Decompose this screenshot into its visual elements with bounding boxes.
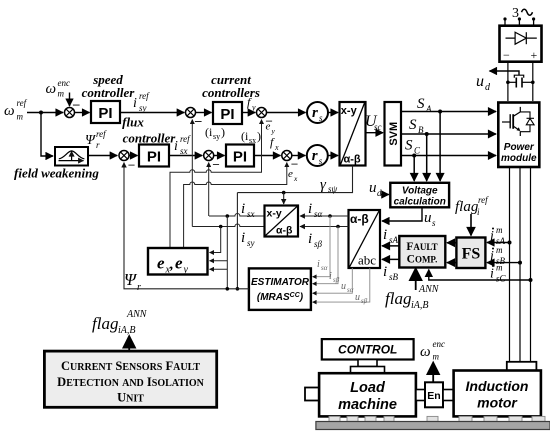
wire field weakening to junction 4 [88, 155, 117, 157]
junction dot gamma branch [282, 191, 286, 195]
label e_x [288, 168, 298, 183]
svg-text:m: m [433, 352, 440, 362]
svg-text:–: – [194, 113, 202, 128]
wire i_sy tap into exey box [210, 227, 221, 253]
junction dot i_sx tap to exey [226, 214, 230, 218]
gain block rs1 [307, 102, 328, 123]
summing junction 3 [257, 108, 267, 118]
shaft stub load machine to encoder [416, 390, 425, 401]
svg-text:enc: enc [433, 339, 446, 349]
junction dot gamma vertical at Psi_r line [236, 287, 240, 291]
svg-text:ref: ref [17, 98, 28, 108]
svg-text:sy: sy [139, 103, 147, 113]
FAULT COMP block [399, 236, 445, 268]
label Psi_r [124, 270, 141, 293]
svg-text:FS: FS [462, 246, 481, 263]
svg-text:y: y [183, 265, 189, 276]
wire gamma_spsi from big block down, left along y=192.6 [237, 166, 352, 193]
label U_sc [365, 113, 382, 132]
svg-text:m: m [17, 112, 24, 122]
svg-text:sα: sα [321, 264, 328, 272]
svg-text:abc: abc [358, 253, 376, 268]
svg-text:α-β: α-β [344, 154, 361, 166]
svg-text:x: x [293, 174, 298, 183]
svg-text:Voltage: Voltage [402, 186, 438, 197]
svg-text:ref: ref [180, 134, 191, 144]
svg-text:e: e [157, 254, 165, 273]
label i_sx (feedback) [241, 201, 255, 219]
svg-text:flag: flag [455, 199, 479, 215]
supply pin A [503, 17, 506, 24]
base bar [316, 422, 550, 430]
svg-text:PI: PI [147, 149, 161, 166]
label i_salpha small [317, 259, 328, 272]
field weakening block [55, 147, 88, 166]
svg-text:sA: sA [389, 235, 399, 245]
svg-text:machine: machine [338, 397, 397, 413]
svg-text:Ψ: Ψ [85, 133, 96, 148]
svg-text:En: En [427, 390, 440, 402]
svg-text:controller: controller [123, 131, 177, 146]
label Psi_r_ref [85, 129, 107, 150]
label u_s [424, 210, 436, 228]
svg-text:(i: (i [241, 129, 249, 143]
wire FAULT COMP to abc block i_sA [382, 245, 399, 247]
control pedestal [351, 360, 385, 374]
svg-text:motor: motor [477, 395, 518, 411]
svg-text:): ) [257, 129, 261, 143]
svg-text:PI: PI [98, 105, 112, 122]
motor terminal pedestal [507, 362, 537, 371]
node omega_m_enc label (top) [46, 78, 71, 99]
label (i_sy) [205, 125, 225, 141]
svg-text:r: r [96, 140, 100, 150]
svg-text:flux: flux [122, 115, 144, 130]
label gamma_spsi [320, 177, 338, 194]
wire i_sC tap under FS into FAULT COMP bottom [429, 270, 531, 281]
wire omega ref to summing junction 1 [27, 112, 63, 114]
svg-text:m: m [58, 89, 65, 99]
rectifier block [500, 26, 542, 62]
svg-text:SVM: SVM [388, 122, 400, 146]
wire junction1 to PI1 [75, 112, 90, 114]
junction dot i_sC tap [529, 278, 533, 282]
wire gamma branch down into small xy block [283, 193, 285, 204]
wire Psi_r tap into exey box [210, 268, 228, 270]
label e_y [266, 121, 276, 136]
svg-text:i: i [383, 264, 387, 280]
svg-text:(i: (i [205, 125, 213, 139]
svg-text:sy: sy [247, 238, 255, 248]
svg-text:–: – [128, 157, 136, 171]
wire i_sx feedback riser to junction 5 [208, 163, 210, 217]
wire flag_i_ref down to FS [470, 214, 472, 236]
CURRENT SENSORS FAULT DETECTION AND ISOLATION UNIT block [44, 351, 216, 407]
wire FAULT COMP to abc block i_sB [382, 258, 399, 260]
wire FS to FAULT COMP (lower) [447, 262, 456, 264]
small transform block x-y / alpha-beta (current) [265, 206, 299, 237]
wire rs2 to xy-ab block [328, 155, 338, 157]
svg-text:controller: controller [82, 85, 136, 100]
svg-text:d: d [377, 188, 382, 198]
wire S_A line to power module [401, 111, 496, 113]
svg-text:Power: Power [504, 142, 535, 153]
summing junction 6 [282, 151, 292, 161]
supply pin C [532, 17, 535, 24]
wire flag_iAB to FAULT COMP bottom [415, 270, 417, 291]
FS block [456, 238, 485, 269]
wire Usc to SVM [366, 132, 384, 134]
svg-text:sβ: sβ [314, 239, 323, 249]
node omega_m_ref input label [4, 98, 28, 122]
summing junction 1 [65, 108, 75, 118]
svg-text:): ) [221, 125, 225, 139]
wire u_s from voltage calculation to ab-abc block [382, 207, 422, 221]
svg-text:i: i [329, 271, 332, 282]
svg-text:i: i [241, 230, 245, 246]
wire u_d into voltage calculation [381, 194, 389, 196]
svg-text:,: , [169, 257, 174, 273]
svg-text:ESTIMATOR: ESTIMATOR [251, 277, 310, 288]
svg-text:PI: PI [233, 149, 247, 166]
svg-text:u: u [341, 281, 346, 292]
wire e_x output path up to junction 6 [184, 163, 287, 249]
junction dot cable B tap [518, 261, 522, 265]
label i_sA [383, 227, 399, 245]
wire flag up from CSFDIU [128, 337, 130, 351]
svg-text:m: m [496, 263, 503, 273]
label S_C [405, 138, 421, 156]
wire u_sbeta from abc bottom to estimator [313, 268, 370, 302]
transform block alpha-beta to abc [349, 210, 381, 268]
Load machine block [319, 373, 416, 416]
wire junction2 to PI2 [196, 112, 212, 114]
label u_d (at voltage calculation) [369, 180, 382, 198]
svg-text:m: m [496, 245, 503, 255]
svg-text:CONTROL: CONTROL [338, 343, 397, 357]
wire DC rail left [507, 62, 509, 101]
svg-text:i: i [174, 139, 178, 154]
junction dot at omega ref branch [39, 111, 43, 115]
junction dot i_sy tap to exey [219, 225, 223, 229]
supply pin B [518, 17, 521, 24]
wire PI2 to junction 3 [242, 112, 255, 114]
label flag_iAB_ANN (left) [92, 309, 148, 336]
label i_sC_m [490, 263, 507, 284]
svg-text:i: i [490, 249, 494, 264]
svg-text:x-y: x-y [341, 105, 358, 117]
svg-text:α-β: α-β [350, 212, 369, 226]
PI controller 1 (speed) [91, 101, 120, 123]
svg-text:s: s [432, 218, 436, 228]
svg-text:e: e [266, 121, 271, 133]
svg-text:ref: ref [139, 91, 150, 101]
svg-text:FAULT: FAULT [406, 241, 437, 253]
svg-text:flag: flag [385, 289, 411, 308]
svg-text:PI: PI [220, 106, 234, 123]
label i_salpha [308, 201, 323, 219]
svg-text:sC: sC [496, 274, 507, 284]
svg-text:r: r [137, 282, 141, 293]
wire cable A tap to FS [487, 242, 510, 244]
junction dot i_salpha tap [328, 214, 332, 218]
shaft stub encoder to motor [443, 390, 454, 401]
svg-text:i: i [317, 259, 320, 270]
voltage calculation block [390, 183, 449, 208]
svg-text:ω: ω [4, 103, 15, 119]
PI controller 2 (current y) [213, 102, 242, 124]
svg-text:controllers: controllers [202, 85, 260, 100]
svg-text:enc: enc [58, 78, 71, 88]
PI controller 4 (current x) [226, 145, 254, 167]
junction dot S_B tap [425, 132, 429, 136]
gain block rs2 [307, 145, 328, 166]
svg-text:sB: sB [389, 272, 399, 282]
svg-text:r: r [312, 105, 318, 121]
svg-text:y: y [251, 103, 256, 112]
wire i_sx line from small xy block (jump over gamma vertical) [209, 214, 265, 217]
Induction motor block [454, 371, 541, 417]
wire PI4 to junction 6 [254, 155, 280, 157]
wire i_salpha from abc block to small xy block [300, 215, 349, 217]
CONTROL block [322, 339, 414, 359]
PI controller 3 (flux) [139, 145, 169, 167]
svg-text:i: i [133, 96, 137, 111]
svg-text:ANN: ANN [418, 284, 440, 295]
wire junction4 to PI3 [129, 155, 138, 157]
encoder En block [425, 382, 443, 407]
wire Psi_r from estimator to flux junction 4 [124, 163, 249, 289]
label omega_m_enc (bottom) [420, 339, 445, 362]
svg-text:sψ: sψ [328, 184, 338, 194]
label u_d (top) [476, 73, 491, 93]
svg-text:field weakening: field weakening [14, 166, 99, 181]
label i_sB [383, 264, 399, 282]
svg-text:i: i [308, 231, 312, 247]
label S_B [409, 117, 424, 135]
svg-text:Load: Load [350, 380, 386, 396]
load machine left shaft stub [305, 388, 319, 401]
svg-text:CURRENT SENSORS FAULT: CURRENT SENSORS FAULT [61, 359, 200, 373]
svg-text:Induction: Induction [466, 378, 529, 394]
svg-text:S: S [417, 96, 425, 112]
label i_sy (feedback) [241, 230, 255, 248]
svg-text:sx: sx [180, 146, 188, 156]
summing junction 4 (flux) [119, 151, 129, 161]
svg-text:i: i [383, 227, 387, 243]
summing junction 2 [186, 108, 196, 118]
svg-text:A: A [425, 104, 432, 114]
coordinate transform block x-y to alpha-beta (voltage) [340, 102, 366, 166]
wire i_salpha tap down to estimator [313, 216, 331, 277]
svg-text:r: r [312, 148, 318, 164]
svg-text:i: i [490, 229, 494, 244]
wire motor cable A [509, 167, 511, 362]
wire S_B tap down to voltage calculation [426, 134, 428, 181]
junction dot DC right [531, 81, 535, 85]
svg-text:u: u [355, 292, 360, 303]
wire i_sbeta tap down to estimator [313, 227, 339, 284]
svg-text:COMP.: COMP. [407, 254, 438, 266]
SVM block [385, 102, 402, 166]
capacitor C_dc [508, 75, 533, 87]
svg-text:sβ: sβ [361, 297, 368, 305]
wire e_y output path up to junction 3 [170, 120, 262, 249]
wire motor cable B [519, 167, 521, 362]
junction dot DC left [506, 81, 510, 85]
wire i_sy feedback riser to junction 2 [191, 120, 193, 227]
svg-text:–: – [212, 157, 220, 171]
wire u_salpha from abc bottom to estimator [313, 268, 353, 293]
label flag_i_ref [455, 195, 489, 217]
label i_sx_ref [174, 134, 191, 156]
svg-text:u: u [424, 210, 432, 226]
svg-text:sc: sc [374, 122, 382, 132]
svg-text:ω: ω [420, 344, 431, 360]
junction dot cable A tap [508, 241, 512, 245]
wire i_sy line from small xy block (jump over gamma vertical) [192, 224, 264, 227]
svg-text:calculation: calculation [394, 197, 446, 208]
svg-text:ANN: ANN [126, 309, 148, 320]
label i_sB_m [490, 245, 506, 266]
svg-text:sα: sα [347, 286, 354, 294]
svg-text:u: u [476, 73, 484, 90]
label S_A [417, 96, 432, 114]
svg-text:u: u [369, 180, 377, 196]
svg-text:module: module [501, 153, 537, 164]
svg-text:x: x [274, 143, 279, 152]
label u_salpha small [341, 281, 354, 294]
svg-text:−: − [503, 48, 510, 62]
label f_y [247, 95, 256, 112]
wire omega ref branch down to field weakening [41, 113, 53, 157]
svg-text:sx: sx [247, 209, 255, 219]
junction dot S_C tap [412, 154, 416, 158]
svg-text:sα: sα [314, 209, 323, 219]
label i_sbeta [308, 231, 323, 249]
svg-text:ref: ref [96, 129, 107, 139]
svg-text:i: i [490, 267, 494, 282]
wire S_A tap down to voltage calculation [439, 112, 441, 182]
svg-text:sβ: sβ [333, 276, 340, 284]
wire S_C line to power module [401, 155, 496, 157]
wire motor cable C [530, 167, 532, 362]
power module block [498, 103, 539, 168]
svg-text:flag: flag [92, 314, 118, 333]
svg-text:s: s [319, 156, 323, 166]
wire DC rail right [532, 62, 534, 101]
wire FS to FAULT COMP (upper) [447, 242, 456, 244]
wire junction6 to rs2 [292, 155, 306, 157]
label i_sy_ref [133, 91, 150, 113]
wire u_d measure arrow [490, 71, 520, 75]
junction dot S_A tap [438, 110, 442, 114]
wire i_sx tap down and Psi_r riser (shared vertical) [226, 216, 228, 289]
label u_sbeta small [355, 292, 368, 305]
junction dot Psi_r line second tap [226, 287, 230, 291]
svg-text:DETECTION AND ISOLATION: DETECTION AND ISOLATION [57, 375, 204, 389]
wire omega_m_enc into junction 1 [69, 93, 71, 107]
machine feet [329, 416, 545, 421]
svg-text:α-β: α-β [276, 225, 293, 237]
svg-text:+: + [531, 48, 538, 62]
svg-text:UNIT: UNIT [117, 391, 144, 405]
svg-text:s: s [319, 113, 323, 123]
svg-text:B: B [418, 125, 424, 135]
svg-text:ω: ω [46, 81, 57, 97]
wire cable B tap to FS [487, 262, 520, 264]
wire S_C tap down to voltage calculation [413, 156, 415, 182]
wire junction5 to PI4 [214, 155, 225, 157]
e_x e_y decoupling block [148, 248, 208, 276]
svg-text:sy: sy [213, 132, 220, 141]
svg-text:ref: ref [478, 195, 489, 205]
svg-text:iA,B: iA,B [118, 325, 136, 336]
svg-text:i: i [241, 201, 245, 217]
ESTIMATOR block [249, 268, 311, 310]
svg-text:i: i [308, 201, 312, 217]
svg-text:S: S [409, 117, 417, 133]
label (i_sx) [241, 129, 261, 145]
summing junction 5 [204, 151, 214, 161]
label i_sA_m [490, 225, 506, 246]
svg-text:x-y: x-y [267, 208, 282, 220]
wire PI3 to junction 5 [169, 155, 202, 157]
svg-text:Ψ: Ψ [124, 270, 138, 289]
svg-text:S: S [405, 138, 413, 154]
label f_x [270, 135, 279, 152]
label i_sbeta small [329, 271, 340, 284]
wire i_sx tap into exey box [210, 260, 228, 262]
junction dot i_sbeta tap [336, 225, 340, 229]
wire S_B line to power module [401, 133, 496, 135]
svg-text:e: e [288, 168, 293, 180]
wire junction3 to rs1 [267, 112, 306, 114]
label flag_iAB_ANN (center bottom) [385, 284, 440, 311]
svg-text:e: e [175, 254, 183, 273]
svg-text:iA,B: iA,B [411, 300, 429, 311]
wire gamma vertical down to Psi_r line [236, 193, 238, 289]
wire omega_enc up from encoder [432, 364, 434, 383]
wire i_sbeta from abc block to small xy block [300, 226, 349, 228]
wire PI1 to junction 2 [120, 112, 184, 114]
svg-text:m: m [496, 225, 503, 235]
wire rs1 to xy-ab block [328, 112, 338, 114]
